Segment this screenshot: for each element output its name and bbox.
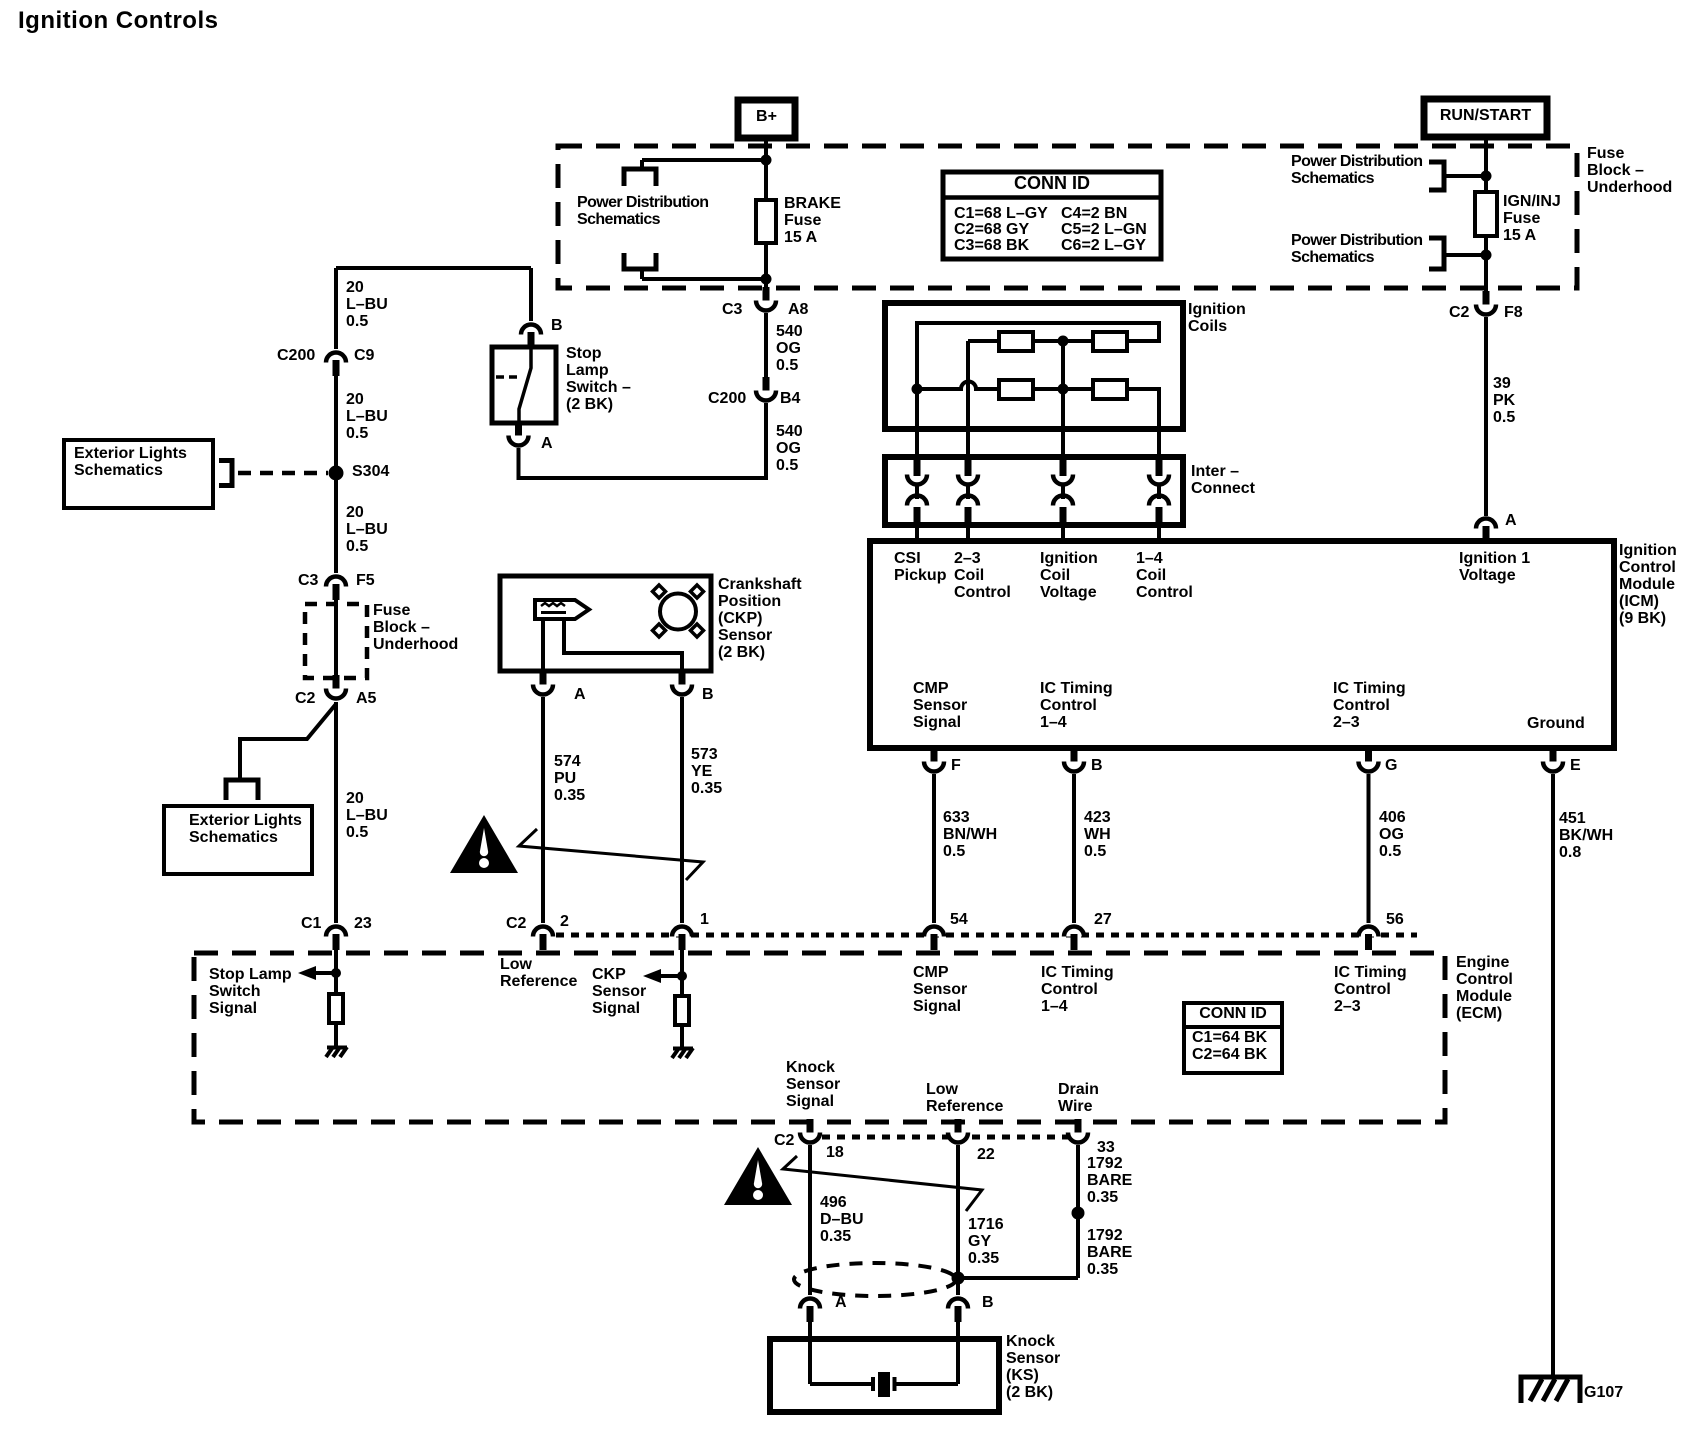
wire resistor to internal ground 1 — [334, 1023, 338, 1047]
wire down to C200/C9 — [334, 268, 338, 349]
resistor pull-up pin 1 — [675, 996, 689, 1025]
arrow stop lamp switch signal — [298, 966, 316, 980]
wire coils to interconnect 3 — [1061, 429, 1065, 458]
label CKP sensor (2 BK) — [718, 576, 802, 661]
label wire 423 WH 0.5 — [1084, 809, 1111, 860]
label pin 18 — [826, 1144, 844, 1161]
wire to stop lamp switch B — [529, 268, 533, 321]
label stop lamp switch (2 BK) — [566, 345, 631, 413]
label wire 1792 BARE 0.35 (1) — [1087, 1155, 1132, 1206]
label power distribution schematics lower right — [1291, 232, 1422, 266]
label CKP sensor signal — [592, 966, 646, 1017]
connector interconnect CSI pickup — [907, 458, 927, 525]
box exterior lights schematics 2 — [164, 806, 312, 874]
label stop lamp switch signal — [209, 966, 292, 1017]
label pin 22 — [977, 1146, 995, 1163]
box inter-connect — [885, 457, 1183, 525]
wire into knock sensor A — [808, 1322, 812, 1384]
warning symbol triangle (knock wires) — [724, 1147, 792, 1205]
label power distribution schematics left — [577, 194, 708, 228]
warning pointer line (CKP) — [519, 829, 703, 880]
box exterior lights schematics 1 — [64, 440, 213, 508]
label E — [1570, 757, 1581, 774]
junction csi/bottom — [912, 384, 923, 395]
wire tap lower to power distribution — [642, 277, 766, 281]
connector B stop lamp switch — [521, 325, 541, 349]
wire 1716 GY — [956, 1145, 960, 1295]
label wire 496 D-BU 0.35 — [820, 1194, 864, 1245]
label wire 540 OG 0.5 (2) — [776, 423, 803, 474]
connector C2/2 ECM — [533, 927, 553, 951]
wire branch to exterior lights 2 — [240, 704, 336, 779]
label pin 27 — [1094, 911, 1112, 928]
connector C3/F5 — [326, 577, 346, 601]
wire interconnect to ICM 1 — [915, 525, 919, 541]
wire resistor to internal ground 2 — [680, 1025, 684, 1048]
label ground (ICM) — [1527, 715, 1585, 732]
wire tap to lower right bracket — [1444, 253, 1486, 257]
label B4 — [780, 390, 800, 407]
label fuse block underhood small — [373, 602, 458, 653]
label wire 406 OG 0.5 — [1379, 809, 1406, 860]
label wire 20 L-BU 0.5 (3) — [346, 790, 388, 841]
splice S304 — [329, 466, 344, 481]
wire stem lower bracket — [640, 269, 644, 279]
label B+ — [739, 108, 794, 125]
wire into knock sensor B — [956, 1322, 960, 1384]
label ignition 1 voltage — [1459, 550, 1530, 584]
coil primary 3 (bottom left) — [999, 380, 1033, 399]
label IGN/INJ fuse 15 A — [1503, 193, 1561, 244]
label conn id col1 — [954, 206, 1048, 254]
wire 423 WH — [1072, 774, 1076, 923]
label F5 — [356, 572, 375, 589]
switch actuator dashes — [496, 375, 517, 379]
label F8 — [1504, 304, 1523, 321]
CKP reluctor wheel symbol — [653, 585, 704, 637]
connector C200/B4 — [756, 377, 776, 401]
label conn id 2 rows — [1192, 1029, 1267, 1064]
label CSI pickup — [894, 550, 946, 584]
wire tap to upper right bracket — [1444, 174, 1486, 178]
connector pin 22 ECM — [948, 1119, 968, 1143]
connector pin 56 ECM — [1359, 927, 1379, 951]
wire RUN/START to IGN/INJ fuse — [1484, 137, 1488, 192]
label C2 (pin 2) — [506, 915, 526, 932]
ground G107 — [1521, 1377, 1580, 1403]
box crankshaft position (CKP) sensor — [500, 576, 711, 671]
connector B ICM — [1064, 748, 1084, 772]
box knock sensor — [770, 1339, 999, 1412]
warning symbol triangle (CKP wires) — [450, 815, 518, 873]
box ignition control module ICM — [870, 541, 1614, 748]
wire 39 PK F8 to ICM A — [1484, 317, 1488, 516]
label C9 — [354, 347, 374, 364]
connector A CKP sensor — [533, 671, 553, 695]
title — [18, 8, 218, 33]
label engine control module (ECM) — [1456, 954, 1513, 1022]
label exterior lights schematics 1 — [74, 445, 187, 479]
connector C2/A5 — [326, 675, 346, 699]
label B ckp — [702, 686, 714, 703]
label wire 1716 GY 0.35 — [968, 1216, 1004, 1267]
label pin 1 — [700, 911, 709, 928]
connector pin 33 ECM — [1068, 1119, 1088, 1143]
label wire 1792 BARE 0.35 (2) — [1087, 1227, 1132, 1278]
label ignition control module (ICM) (9 BK) — [1619, 542, 1677, 627]
coil primary 4 (bottom right) — [1093, 380, 1127, 399]
junction stop lamp switch signal — [331, 968, 341, 978]
connector interconnect 2-3 coil control — [958, 458, 978, 525]
resistor pull-up pin 23 — [329, 994, 343, 1023]
label C200 — [277, 347, 315, 364]
label C200 (B4) — [708, 390, 746, 407]
label A ICM — [1505, 512, 1517, 529]
connector C2/F8 — [1476, 291, 1496, 315]
arrow CKP sensor signal — [643, 969, 661, 983]
wire drain to low reference splice — [958, 1276, 1078, 1280]
wire 451 BK/WH to G107 — [1551, 774, 1555, 1378]
label IC timing control 1-4 (ECM) — [1041, 964, 1114, 1015]
connector B knock sensor — [948, 1299, 968, 1323]
switch blade stop lamp switch — [519, 347, 531, 423]
label B ICM — [1091, 757, 1103, 774]
wire stem upper bracket — [640, 160, 644, 169]
wire stop lamp top run — [336, 266, 531, 270]
connector C3/A8 — [756, 287, 776, 311]
twisted pair ellipse — [794, 1263, 956, 1296]
wire C9 to C3/F5 — [334, 376, 338, 573]
fuse block underhood (dashed) — [558, 146, 1577, 288]
coil primary 1 (top left) — [999, 332, 1033, 351]
junction top coils — [1058, 336, 1069, 347]
label pin 33 — [1097, 1139, 1115, 1156]
wire to stop lamp arrow — [316, 971, 336, 975]
label pin 56 — [1386, 911, 1404, 928]
label wire 574 PU 0.35 — [554, 753, 585, 804]
junction voltage/bottom — [1058, 384, 1069, 395]
wire coils to interconnect 2 — [966, 429, 970, 458]
label CMP sensor signal (ECM) — [913, 964, 967, 1015]
connector interconnect coil voltage — [1053, 458, 1073, 525]
label wire 633 BN/WH 0.5 — [943, 809, 997, 860]
connector C1/23 ECM — [326, 927, 346, 951]
connector C200/C9 — [326, 353, 346, 377]
label wire 573 YE 0.35 — [691, 746, 722, 797]
fuse IGN/INJ 15A — [1475, 192, 1497, 236]
wire 1792 BARE drain — [1076, 1145, 1080, 1278]
wire 406 OG — [1367, 774, 1371, 923]
ground internal ECM 2 — [672, 1048, 693, 1058]
label IC timing control 2-3 (ECM) — [1334, 964, 1407, 1015]
CKP pickup coil symbol — [535, 600, 589, 619]
label pin 23 — [354, 915, 372, 932]
label A8 — [788, 301, 808, 318]
box engine control module ECM (dashed) — [194, 953, 1445, 1122]
label pin 2 — [560, 913, 569, 930]
wire between top coils — [1033, 339, 1093, 343]
wire 574 PU to ECM pin 2 — [541, 697, 545, 923]
label 1-4 coil control — [1136, 550, 1193, 601]
label knock sensor (KS) (2 BK) — [1006, 1333, 1060, 1401]
wire bottom horizontal left — [917, 387, 953, 391]
label low reference (pin 2) — [500, 956, 577, 990]
RUN/START power terminal — [1424, 99, 1547, 137]
label pin 54 — [950, 911, 968, 928]
label wire 20 L-BU 0.5 (1) — [346, 279, 388, 330]
label CONN ID header — [944, 174, 1160, 193]
continuation bracket exterior lights 2 — [226, 780, 258, 800]
wire to ckp arrow — [661, 974, 682, 978]
coil primary 2 (top right) — [1093, 332, 1127, 351]
label exterior lights schematics 2 — [189, 812, 302, 846]
label B knock — [982, 1294, 994, 1311]
fuse block underhood small (dashed) — [305, 604, 367, 678]
label ignition coil voltage — [1040, 550, 1098, 601]
label C1 (23) — [301, 915, 321, 932]
label C2 (F8) — [1449, 304, 1469, 321]
wire hop over 2-3 control — [953, 382, 999, 390]
label inter-connect — [1191, 463, 1255, 497]
ignition coils internal wiring — [917, 323, 1159, 389]
CONN ID table (ECM connectors) — [1184, 1003, 1282, 1073]
connector pin 54 ECM — [924, 927, 944, 951]
warning pointer line (knock) — [783, 1156, 982, 1211]
connector F ICM — [924, 748, 944, 772]
label S304 — [352, 463, 389, 480]
label conn id col2 — [1061, 206, 1147, 254]
junction drain wire — [1072, 1207, 1085, 1220]
label IC timing control 1-4 (ICM) — [1040, 680, 1113, 731]
wire IGN/INJ fuse down to C2/F8 — [1484, 236, 1488, 292]
connector pin 27 ECM — [1064, 927, 1084, 951]
label C2 (A5) — [295, 690, 315, 707]
wire ckp pickup to A — [541, 619, 545, 672]
wire bottom horizontal mid — [1033, 387, 1093, 391]
wire coils to interconnect 1 — [915, 429, 919, 458]
label IC timing control 2-3 (ICM) — [1333, 680, 1406, 731]
ground internal ECM 1 — [326, 1047, 347, 1057]
continuation bracket exterior lights 1 — [219, 461, 232, 486]
wire A8 to C200/B4 — [764, 313, 768, 378]
wire B+ to BRAKE fuse — [764, 138, 768, 200]
connector E ICM — [1543, 748, 1563, 772]
wire coil voltage vertical — [1061, 341, 1065, 429]
junction ckp sensor signal — [677, 971, 687, 981]
CONN ID table (C200 connectors) — [943, 172, 1161, 259]
label ignition coils — [1188, 301, 1246, 335]
label B — [551, 317, 563, 334]
dotted connector line C2 (ECM top) — [556, 933, 1417, 938]
continuation bracket lower right (power distribution) — [1429, 238, 1444, 269]
connector G ICM — [1359, 748, 1379, 772]
label F — [951, 757, 961, 774]
connector A knock sensor — [800, 1299, 820, 1323]
label 2-3 coil control — [954, 550, 1011, 601]
label G — [1385, 757, 1397, 774]
connector pin 1 ECM — [672, 927, 692, 951]
label A knock — [835, 1294, 847, 1311]
label A — [541, 435, 553, 452]
wire to coil1 left — [968, 339, 999, 343]
wire pin23 internal — [334, 950, 338, 994]
box ignition coils — [885, 303, 1183, 429]
connector C2/18 ECM — [800, 1119, 820, 1143]
box stop lamp switch — [492, 347, 556, 423]
wire interconnect to ICM 4 — [1157, 525, 1161, 541]
wire coil csi vertical — [915, 323, 919, 429]
label BRAKE fuse 15 A — [784, 195, 841, 246]
junction B+ lower tap — [761, 274, 772, 285]
label drain wire — [1058, 1081, 1099, 1115]
dashed wire to S304 — [238, 471, 328, 476]
wire through fuse block to C2/A5 — [334, 600, 338, 675]
label A ckp — [574, 686, 586, 703]
wire A5 to ECM C1/23 — [334, 702, 338, 923]
label wire 39 PK 0.5 — [1493, 375, 1515, 426]
wire ckp pickup to B — [564, 619, 682, 672]
connector A stop lamp switch — [509, 422, 529, 446]
label CONN ID header 2 — [1185, 1005, 1281, 1022]
connector A ICM — [1476, 519, 1496, 543]
label wire 451 BK/WH 0.8 — [1559, 810, 1613, 861]
label fuse block underhood — [1587, 145, 1672, 196]
connector B CKP sensor — [672, 671, 692, 695]
label C3 (F5) — [298, 572, 318, 589]
continuation bracket upper (power distribution) — [624, 169, 656, 186]
wire coils to interconnect 4 — [1157, 429, 1161, 458]
wire 2-3 coil control vertical — [966, 341, 970, 429]
wire pin1 internal — [680, 950, 684, 996]
continuation bracket upper right (power distribution) — [1429, 162, 1444, 190]
wire 633 BN/WH — [932, 774, 936, 923]
wire interconnect to ICM 2 — [966, 525, 970, 541]
label wire 540 OG 0.5 (1) — [776, 323, 803, 374]
knock sensor piezo element — [810, 1372, 958, 1397]
junction B+ upper tap — [761, 155, 772, 166]
label knock sensor signal — [786, 1059, 840, 1110]
B+ power terminal — [738, 100, 795, 138]
wire tap upper to power distribution — [642, 158, 766, 162]
wire 573 YE to ECM pin 1 — [680, 697, 684, 923]
label wire 20 L-BU 0.5 (1b) — [346, 391, 388, 442]
label RUN/START — [1425, 107, 1546, 124]
connector interconnect 1-4 coil control — [1149, 458, 1169, 525]
junction drain/low reference — [952, 1272, 965, 1285]
label wire 20 L-BU 0.5 (2) — [346, 504, 388, 555]
label C2 (18) — [774, 1132, 794, 1149]
label CMP sensor signal (ICM) — [913, 680, 967, 731]
label A5 — [356, 690, 376, 707]
dotted connector line C2 (ECM bottom) — [822, 1135, 1078, 1140]
label G107 — [1584, 1384, 1623, 1401]
wire interconnect to ICM 3 — [1061, 525, 1065, 541]
junction ign fuse upper tap — [1481, 171, 1492, 182]
junction ign fuse lower tap — [1481, 250, 1492, 261]
fuse BRAKE 15A — [756, 200, 776, 243]
label power distribution schematics upper right — [1291, 153, 1422, 187]
wire switch A to C200/B4 — [519, 403, 767, 478]
wire 496 D-BU — [808, 1145, 812, 1295]
continuation bracket lower (power distribution) — [624, 253, 656, 269]
label C3 (A8) — [722, 301, 742, 318]
label low reference (pin 22) — [926, 1081, 1003, 1115]
wire BRAKE fuse to C3/A8 — [764, 243, 768, 292]
wire bottom to 1-4 vertical — [1127, 389, 1159, 429]
